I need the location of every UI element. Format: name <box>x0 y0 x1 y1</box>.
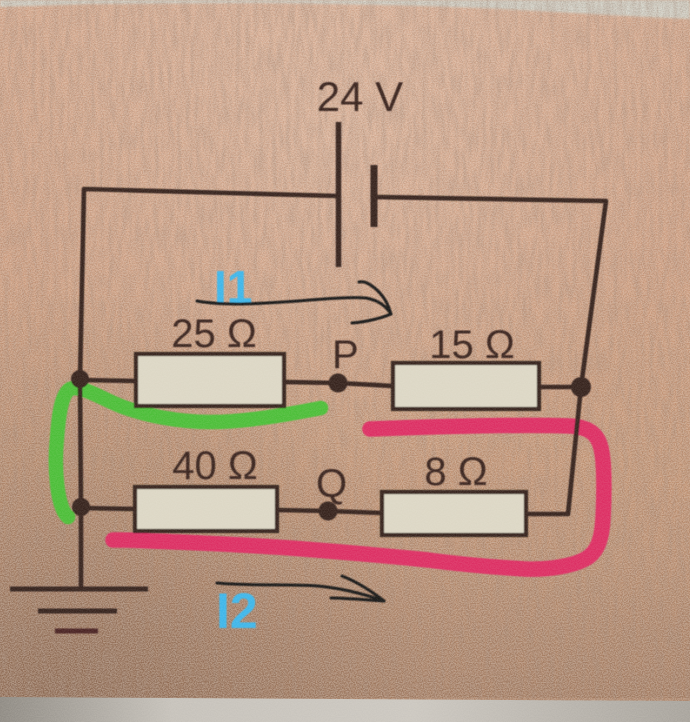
node P label <box>332 333 359 377</box>
battery B1: short plate <box>371 165 378 227</box>
current arrow I1 <box>197 282 391 323</box>
wire: top-right segment + right vertical <box>374 197 606 387</box>
resistor R3 40ohm <box>135 487 277 531</box>
current arrow I2 <box>217 576 384 601</box>
battery B1 24V: long plate <box>336 122 342 267</box>
wire: R2 to right node <box>539 385 581 390</box>
value label 40 ohm <box>172 444 258 488</box>
current label I2 <box>216 583 258 639</box>
value label 8 ohm <box>424 450 487 494</box>
value label 25 ohm <box>171 312 257 356</box>
resistor R2 15ohm <box>393 363 539 409</box>
wire: R3 to node Q <box>277 510 328 511</box>
junction dot right node <box>571 377 591 397</box>
junction dot left top node <box>71 370 89 388</box>
current label I1 <box>214 261 252 313</box>
node P dot <box>329 374 348 393</box>
wire: R1 to node P <box>284 382 338 383</box>
wire: left node to R3 <box>81 508 135 509</box>
resistor R4 8ohm <box>382 492 526 535</box>
ground <box>10 589 148 631</box>
wire: left + top-left segment <box>80 189 338 588</box>
resistor R1 25ohm <box>136 354 284 406</box>
wire: left node to R1 <box>80 380 136 381</box>
value label 15 ohm <box>429 323 515 367</box>
node Q dot <box>319 502 338 521</box>
node Q label <box>316 462 347 506</box>
green marker stroke <box>56 388 321 517</box>
value label 24 V <box>317 73 403 120</box>
wire: node Q to R4 <box>328 511 382 513</box>
wire: lower-right vertical <box>526 387 581 514</box>
junction dot left bottom node <box>72 498 90 516</box>
pink marker stroke <box>113 425 604 569</box>
wire: node P to R2 <box>338 383 393 386</box>
